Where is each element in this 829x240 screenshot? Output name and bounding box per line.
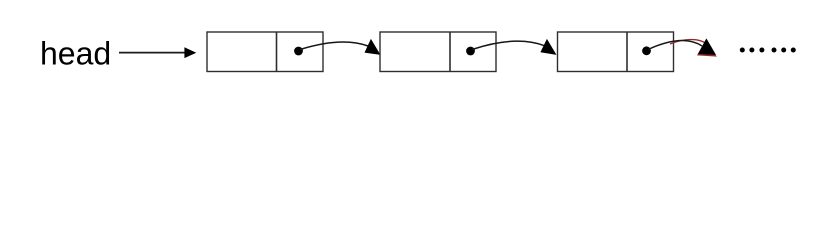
curved arrow node1-to-node2 xyxy=(300,39,381,55)
curved arrow node2-to-node3 xyxy=(472,39,557,55)
node 2 pointer dot xyxy=(466,47,475,56)
label head xyxy=(40,36,111,72)
ellipsis dots xyxy=(740,48,796,53)
node 2 box xyxy=(380,32,496,72)
svg-text:head: head xyxy=(40,36,111,72)
node 1 box xyxy=(207,32,323,72)
curved arrow node3-to-ellipsis red overlay xyxy=(670,40,717,57)
node 3 divider xyxy=(626,32,628,72)
node 1 pointer dot xyxy=(294,47,303,56)
node 3 pointer dot xyxy=(642,46,651,55)
arrow head-to-node1 xyxy=(119,47,196,58)
curved arrow node3-to-ellipsis xyxy=(648,38,716,55)
node 3 box xyxy=(558,32,674,72)
node 2 divider xyxy=(449,32,451,72)
node 1 divider xyxy=(276,32,278,72)
